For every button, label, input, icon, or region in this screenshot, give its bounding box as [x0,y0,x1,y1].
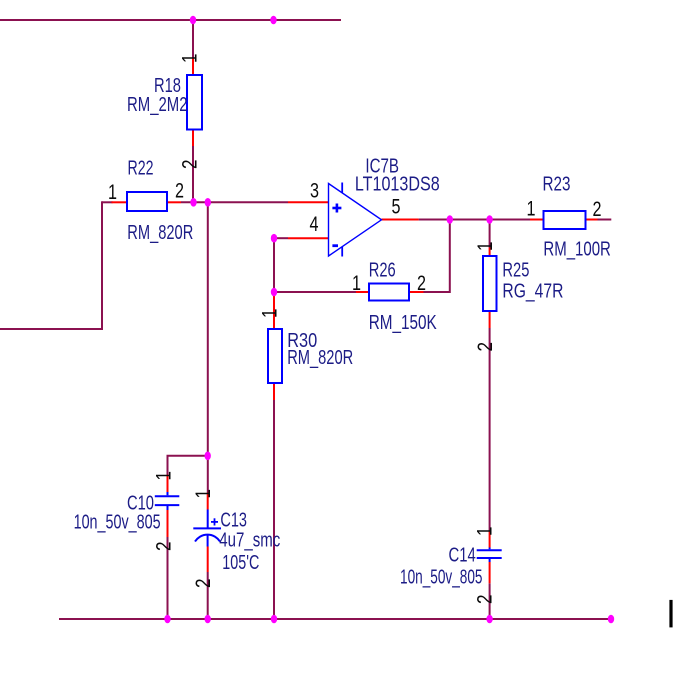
capacitor C14 pin 2 wire [489,562,491,583]
op-amp IC7B V+ power tick [341,183,343,193]
resistor R18 pin 2 wire [192,129,194,146]
cursor bar artifact [669,600,672,628]
junction bottom rail C13 [205,615,211,624]
junction bottom rail R30 [271,615,277,624]
junction R25 top node [486,215,492,224]
wire opamp pin4 stub [274,237,288,239]
svg-text:1: 1 [352,272,361,295]
svg-text:2: 2 [192,579,215,589]
svg-text:1: 1 [527,198,536,221]
capacitor C13 pin 1 wire [207,493,209,510]
resistor R26 pin 1 wire [356,291,369,293]
junction bottom rail end [608,615,614,624]
resistor R25 body [483,256,497,311]
wire C13 branch vertical [207,202,209,492]
wire output down vertical [449,220,451,294]
svg-text:1: 1 [179,54,202,64]
wire C14 bottom [489,583,491,619]
wire feedback vertical [273,238,275,292]
capacitor C13 pin 2 wire [207,547,209,573]
svg-text:1: 1 [259,309,282,319]
svg-text:LT1013DS8: LT1013DS8 [355,174,440,196]
svg-text:4u7_smc: 4u7_smc [219,530,280,552]
op-amp IC7B pin 5 wire [382,219,419,221]
wire top rail [0,19,341,21]
wire bottom rail [59,618,611,620]
resistor R30 pin 2 wire [273,383,275,400]
wire C10 branch horizontal [167,455,208,457]
svg-text:5: 5 [392,196,401,219]
wire output horizontal [419,219,530,221]
svg-text:2: 2 [417,272,426,295]
wire feedback horizontal [274,291,356,293]
svg-text:1: 1 [474,527,497,537]
junction bottom rail C10 [164,615,170,624]
wire R25 to C14 [489,328,491,531]
resistor R22 pin 2 wire [167,201,181,203]
resistor R25 pin 1 wire [489,248,491,257]
svg-text:C13: C13 [220,510,247,532]
svg-text:C14: C14 [449,545,476,567]
svg-text:2: 2 [474,595,497,605]
svg-text:4: 4 [310,213,319,236]
junction C13 branch top [205,198,211,207]
svg-text:2: 2 [175,180,184,203]
wire left horizontal [0,328,103,330]
resistor R18 pin 1 wire [192,59,194,77]
resistor R26 body [369,284,409,301]
wire node to opamp pin3 [181,201,288,203]
op-amp IC7B pin 4 wire [288,237,329,239]
svg-text:2: 2 [179,160,202,170]
svg-text:RM_100R: RM_100R [543,239,611,261]
resistor R22 pin 1 wire [112,201,128,203]
svg-text:R25: R25 [502,260,529,282]
wire R26 to output [424,291,450,293]
svg-text:RM_150K: RM_150K [369,312,438,334]
svg-text:2: 2 [474,342,497,352]
resistor R25 pin 2 wire [489,311,491,328]
op-amp IC7B minus input mark [332,244,338,247]
capacitor C14 pin 1 wire [489,531,491,548]
op-amp IC7B triangle body [329,184,382,257]
svg-text:10n_50v_805: 10n_50v_805 [74,512,161,534]
resistor R26 pin 2 wire [409,291,424,293]
op-amp IC7B V- power tick [341,247,343,257]
capacitor C14 symbol [477,548,502,563]
capacitor C13 polarized symbol [193,510,221,547]
svg-text:2: 2 [593,198,602,221]
wire C13 bottom [207,572,209,619]
wire R18 bottom vertical [192,146,194,202]
op-amp IC7B plus input mark [332,204,341,213]
wire C10 top vertical [167,456,169,475]
svg-text:1: 1 [108,181,117,204]
junction opamp pin4 [271,234,277,243]
capacitor C13 plus polarity mark [211,518,218,525]
svg-text:10n_50v_805: 10n_50v_805 [400,567,483,589]
capacitor C10 symbol [155,492,180,510]
op-amp IC7B pin 3 wire [288,201,329,203]
junction feedback node [271,288,277,297]
svg-text:RM_820R: RM_820R [287,347,353,369]
junction top rail right [270,16,276,25]
wire R30 bottom [273,400,275,619]
resistor R23 pin 1 wire [530,219,544,221]
svg-text:R23: R23 [543,174,571,196]
svg-text:1: 1 [152,471,175,481]
wire R25 top [489,220,491,248]
junction top rail at R18 [190,16,196,25]
junction C10 branch [205,452,211,461]
svg-text:R22: R22 [128,158,154,180]
resistor R22 body [127,192,167,211]
svg-text:RM_2M2: RM_2M2 [127,94,188,116]
svg-text:3: 3 [310,180,319,203]
svg-text:R26: R26 [369,260,396,282]
svg-text:105'C: 105'C [222,552,259,574]
wire R18 top vertical [192,20,194,59]
resistor R18 body [187,75,202,130]
wire R23 right stub [598,219,612,221]
capacitor C10 pin 2 wire [167,510,169,537]
resistor R30 body [268,329,282,383]
resistor R23 pin 2 wire [585,219,598,221]
junction output node [447,215,453,224]
svg-text:1: 1 [192,489,215,499]
capacitor C10 pin 1 wire [167,475,169,493]
resistor R30 pin 1 wire [273,292,275,329]
svg-text:2: 2 [152,542,175,552]
svg-text:RM_820R: RM_820R [127,222,193,244]
wire R22 left stub [102,201,113,203]
junction bottom rail C14 [486,615,492,624]
wire C10 bottom [167,537,169,619]
resistor R23 body [544,211,586,229]
wire left vertical [101,201,103,329]
svg-text:RG_47R: RG_47R [502,281,563,303]
svg-text:1: 1 [474,242,497,252]
junction R22 pin2 node [190,198,196,207]
